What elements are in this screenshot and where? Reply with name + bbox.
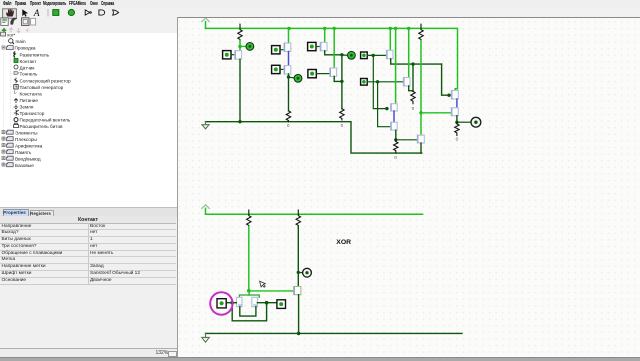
properties tab strip	[0, 207, 177, 217]
empty lower panel	[0, 284, 176, 349]
transistor Q5	[330, 68, 337, 76]
selection halo	[210, 292, 232, 314]
wire floating segment 3	[456, 99, 458, 108]
transistor Q3	[284, 65, 291, 73]
wire H to Q8 gate	[373, 55, 388, 108]
transistor Q7	[403, 77, 410, 86]
menu bar	[0, 0, 640, 10]
svg-text:Контакт: Контакт	[20, 59, 38, 64]
wire Q3 drain	[288, 74, 290, 111]
transistor Q9	[391, 122, 398, 130]
svg-text:Расширитель битов: Расширитель битов	[20, 124, 64, 129]
node taps on bus	[287, 26, 410, 29]
left panel / canvas divider	[177, 17, 178, 357]
pin input D	[308, 42, 316, 50]
pin input P12	[277, 299, 286, 308]
power symbol VDD1	[202, 18, 210, 22]
probe P1	[240, 45, 246, 47]
svg-text:Тактовый генератор: Тактовый генератор	[20, 84, 64, 90]
transistor Q1	[235, 50, 242, 59]
pin square icon	[53, 10, 59, 16]
wire Q12 drain	[456, 115, 458, 122]
wire Q1 drain	[239, 59, 241, 122]
bottom window strip	[0, 357, 640, 361]
transistor Q4	[320, 42, 327, 50]
wire TG outer loop	[232, 302, 266, 320]
wire VDD bus	[206, 28, 458, 90]
svg-text:Проводка: Проводка	[15, 45, 36, 50]
svg-text:Плексоры: Плексоры	[15, 137, 37, 142]
wire floating segment 2	[393, 111, 395, 122]
properties table	[0, 216, 176, 224]
svg-text:Транзистор: Транзистор	[20, 111, 45, 116]
status row of left panel	[0, 348, 177, 358]
OR gate icon	[113, 10, 119, 15]
explorer row icons	[1, 18, 8, 26]
resistor R5	[411, 91, 415, 103]
wire to Q11 gate	[421, 111, 452, 113]
wire R4 column	[420, 40, 422, 135]
wire Q6 drain row	[391, 58, 442, 63]
wire VDD to Q6	[389, 28, 391, 50]
svg-text:Арифметика: Арифметика	[15, 143, 43, 148]
transistor Q8	[391, 103, 398, 110]
transistor Q11	[451, 90, 458, 99]
wire ground rail 2	[206, 332, 463, 334]
svg-text:main: main	[16, 39, 27, 44]
wire to Q10 gate	[396, 138, 418, 140]
ground symbol G1	[202, 121, 209, 128]
wire VDD to Q7	[408, 28, 410, 77]
wire TG gate loop	[240, 306, 256, 315]
wire node F vertical	[341, 54, 343, 108]
small row: green plus and pale arrows	[2, 28, 7, 33]
left panel background regions	[0, 17, 177, 34]
wire TG left terminal	[227, 301, 237, 303]
resistor R4	[419, 24, 423, 40]
node junction TG top	[247, 289, 251, 293]
probe P5	[342, 54, 347, 56]
resistor R1	[238, 24, 242, 40]
pin input C	[272, 65, 280, 73]
pin input E	[308, 69, 316, 77]
wire R9 column	[297, 226, 299, 286]
NOT gate icon	[85, 10, 90, 15]
wire K to Q9 gate	[378, 81, 390, 126]
hand tool (selected)	[3, 9, 17, 18]
pin circle icon	[68, 9, 74, 15]
transmission gate pair	[248, 290, 250, 294]
main toolbar row	[0, 9, 640, 17]
svg-text:Питание: Питание	[20, 98, 39, 103]
svg-text:Датчик: Датчик	[20, 65, 36, 70]
svg-text:Ввод/вывод: Ввод/вывод	[15, 156, 41, 161]
wire Q13 drain	[298, 294, 300, 333]
ground bus	[206, 121, 422, 152]
svg-text:Память: Память	[15, 150, 32, 155]
wire Q5 drain	[334, 76, 342, 81]
transistor Q13	[294, 286, 301, 294]
svg-text:XOR: XOR	[336, 239, 351, 246]
wire H to Q6 gate	[367, 54, 386, 56]
pin input K	[361, 78, 368, 85]
svg-text:Земля: Земля	[20, 104, 34, 109]
wire to Q13 gate	[249, 289, 294, 291]
probe P10	[298, 271, 303, 273]
resistor R7	[455, 122, 459, 135]
svg-text:1·: 1·	[14, 90, 18, 95]
transistor Q12	[451, 107, 458, 115]
svg-text:Тоннель: Тоннель	[20, 72, 38, 77]
svg-text:Передаточный вентиль: Передаточный вентиль	[20, 116, 71, 122]
svg-text:Константа: Константа	[20, 91, 43, 96]
pin input P11	[217, 298, 226, 307]
wire TG right terminal	[257, 301, 276, 303]
power symbol VDD2	[202, 204, 210, 208]
wire node A	[239, 40, 241, 51]
wire node to R5	[412, 64, 414, 91]
canvas	[178, 17, 640, 358]
wire floating segment	[288, 51, 290, 65]
wire Q10 drain	[420, 143, 422, 153]
pin input H	[361, 52, 368, 59]
transistor Q2	[284, 43, 291, 51]
wire K to Q7 gate	[367, 80, 403, 82]
resistor R6	[394, 139, 398, 152]
resistor R3	[340, 108, 344, 119]
svg-text:Базовые: Базовые	[15, 163, 34, 168]
svg-text:Разветвитель: Разветвитель	[20, 52, 50, 57]
wire VDD to Q2	[288, 28, 290, 43]
pin input B	[272, 45, 280, 53]
wire to Q11 gate from drain row	[442, 64, 452, 95]
resistor R9	[296, 210, 300, 227]
cursor arrow	[22, 9, 28, 17]
transistor Q6	[386, 50, 393, 59]
wire VDD to Q4	[324, 28, 326, 42]
probe P9 output	[457, 121, 471, 123]
ground symbol G2	[202, 333, 209, 342]
pin input A	[223, 50, 231, 58]
AND gate icon	[99, 10, 105, 15]
svg-text:A: A	[33, 9, 40, 19]
wire VDD bus 2	[206, 213, 423, 215]
wire Q7 drain	[409, 86, 413, 91]
wire Q4 drain	[325, 50, 342, 54]
probe P3	[289, 76, 295, 79]
wire Q9 drain	[395, 130, 397, 140]
svg-text:Элементы: Элементы	[15, 130, 38, 135]
project tree	[0, 31, 177, 171]
transistor Q10	[417, 135, 424, 143]
wire VDD to Q8	[395, 28, 397, 103]
wire VDD to Q5	[333, 28, 335, 68]
wire R8 column	[248, 226, 250, 290]
resistor R8	[247, 210, 251, 227]
resistor R2	[286, 110, 290, 121]
svg-text:Согласующий резистор: Согласующий резистор	[20, 77, 71, 83]
toolbar icons svg	[0, 0, 180, 36]
separator	[47, 9, 49, 17]
mouse cursor	[260, 281, 266, 287]
